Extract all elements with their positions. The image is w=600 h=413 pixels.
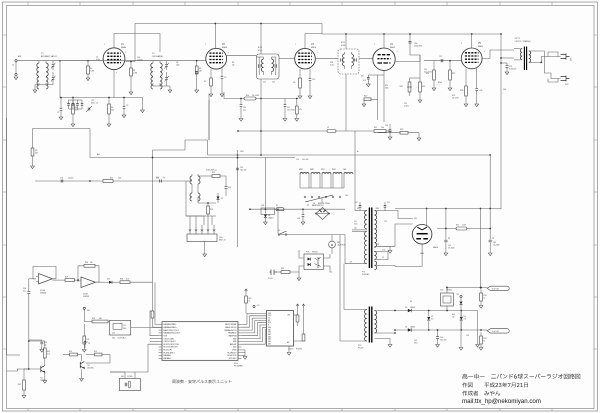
wire PT2 primary taps [344, 309, 367, 311]
capacitor C29 plate bypass [506, 63, 508, 65]
svg-text:X01: X01 [87, 310, 90, 312]
wire AC rail lower [278, 234, 345, 236]
wire PT2 secondary taps [374, 310, 395, 312]
ground PT1 center tap [384, 246, 390, 250]
jack J2 DC out 1 [487, 286, 509, 290]
svg-text:MULT_IO: MULT_IO [219, 240, 227, 242]
wire jog to rail [208, 154, 238, 156]
capacitor C33 line filter [302, 209, 304, 214]
svg-text:E: E [268, 325, 269, 327]
svg-text:100u 16V: 100u 16V [240, 169, 246, 171]
svg-text:22u-350V: 22u-350V [493, 244, 500, 246]
svg-text:100u 16V: 100u 16V [440, 339, 446, 341]
svg-text:100: 100 [452, 316, 455, 318]
wire T02 out [86, 355, 110, 364]
svg-text:R07: R07 [65, 277, 68, 279]
cathode bus [60, 97, 143, 99]
svg-text:0.01u: 0.01u [354, 223, 358, 225]
svg-text:R21: R21 [422, 86, 425, 88]
wire IFT2 left pin [315, 58, 338, 60]
wire band switch drop [321, 198, 323, 203]
capacitor C52 primary [384, 206, 387, 208]
svg-text:IC05: IC05 [440, 290, 444, 292]
wire filter link rail [437, 228, 490, 230]
svg-text:5: 5 [317, 52, 318, 54]
svg-text:220p 500V: 220p 500V [414, 45, 423, 47]
svg-text:2SC1815: 2SC1815 [87, 367, 94, 369]
wire T1 bottoms [39, 84, 53, 86]
diode D6 rectifier [408, 328, 411, 331]
node B+ bus A [135, 23, 322, 25]
microcontroller IC03 PIC16F886 [162, 322, 238, 361]
ground T2 [169, 86, 171, 90]
svg-text:0.01u: 0.01u [96, 59, 100, 61]
resistor R14 on input line [103, 180, 113, 183]
svg-text:R22: R22 [364, 96, 367, 98]
wire IF B+ branch rail [238, 130, 355, 132]
connector CN1 MULT_IO [187, 234, 217, 242]
resistor R18 [70, 353, 78, 356]
svg-text:R12: R12 [212, 172, 215, 174]
ground LCD [288, 346, 290, 352]
wire IFT2 to V4 [359, 58, 373, 60]
capacitor C16 [41, 340, 43, 342]
wire AGC jog 1 [153, 149, 186, 151]
svg-text:3.6: 3.6 [431, 318, 433, 320]
svg-text:SW2: SW2 [332, 169, 336, 171]
svg-text:C26: C26 [385, 125, 388, 127]
wire LCD right side [294, 314, 298, 316]
svg-text:C4: C4 [96, 57, 98, 59]
svg-text:4.7k: 4.7k [299, 109, 302, 111]
svg-text:B+: B+ [357, 151, 359, 153]
svg-text:1: 1 [205, 44, 206, 46]
svg-text:GR8038: GR8038 [40, 292, 46, 294]
zener diode D8 [460, 311, 462, 317]
svg-text:(P-B): (P-B) [341, 45, 346, 47]
svg-text:R20: R20 [385, 85, 388, 87]
svg-text:R14: R14 [110, 178, 113, 180]
svg-text:1.5M: 1.5M [133, 72, 137, 74]
capacitor C25 [367, 75, 369, 77]
svg-text:1N4007: 1N4007 [410, 307, 415, 309]
svg-text:4.7k: 4.7k [47, 353, 50, 355]
svg-text:D2: D2 [221, 198, 223, 200]
svg-text:220 1/2W: 220 1/2W [452, 97, 459, 99]
wire bridge in rail [316, 213, 329, 215]
svg-text:C34: C34 [404, 103, 407, 105]
wire T2 to V2 grid [61, 60, 160, 62]
resistor R28 LCD [297, 312, 299, 315]
wire IFT1 left pin [256, 56, 259, 58]
resistor R33 bleeder [480, 288, 482, 294]
svg-text:56k: 56k [90, 262, 93, 264]
svg-text:X02: X02 [121, 376, 124, 378]
wire DC rail upper [395, 310, 478, 312]
wire input coupling [29, 278, 36, 280]
svg-text:C24: C24 [330, 62, 333, 64]
wire antenna line to V1 [35, 60, 103, 62]
svg-text:R32: R32 [452, 314, 455, 316]
svg-text:470u: 470u [414, 342, 418, 344]
svg-text:C28: C28 [479, 90, 482, 92]
svg-text:0.022u: 0.022u [404, 105, 409, 107]
svg-text:100k: 100k [118, 178, 122, 180]
svg-text:1: 1 [374, 44, 375, 46]
svg-text:T02: T02 [87, 365, 90, 367]
svg-text:MULT_1C: MULT_1C [91, 102, 99, 104]
svg-text:R30: R30 [281, 268, 284, 270]
wire AVC rail [90, 157, 295, 159]
svg-text:1: 1 [461, 43, 462, 45]
heater transformer PT2 core [369, 307, 371, 343]
wire rail riser x=237.5 [237, 150, 239, 247]
resistor R6 grid [196, 61, 198, 66]
wire B+ feed riser right [489, 155, 491, 209]
wire CN1 ground [204, 242, 206, 255]
resistor R15 [83, 324, 85, 336]
svg-text:C10: C10 [137, 57, 140, 59]
svg-text:1k: 1k [484, 297, 486, 299]
svg-text:DB6: DB6 [268, 341, 271, 343]
svg-text:47u 350V: 47u 350V [448, 247, 454, 249]
svg-text:R02: R02 [18, 384, 21, 386]
svg-text:RB5/AN13/T1G: RB5/AN13/T1G [224, 329, 237, 332]
buffer transformer T4 upper [191, 174, 193, 176]
wire jack rail riser [479, 209, 481, 288]
wire buffer outputs down [203, 216, 205, 225]
svg-text:C27: C27 [439, 56, 442, 58]
svg-text:100: 100 [354, 228, 357, 230]
wire filament taps join [381, 252, 388, 260]
switch S2 power [278, 234, 280, 236]
wire switch feed [277, 209, 279, 234]
wire AVC tap [59, 61, 61, 98]
svg-text:DB1: DB1 [268, 329, 271, 331]
resistor R10 screen [244, 97, 256, 100]
svg-text:R18: R18 [69, 351, 72, 353]
svg-text:RB7/ICSPDAT: RB7/ICSPDAT [225, 323, 237, 326]
wire X04 output to MCU [131, 327, 162, 329]
svg-text:6BD6: 6BD6 [311, 47, 317, 49]
svg-text:DB2: DB2 [268, 332, 271, 334]
svg-text:1k: 1k [484, 340, 486, 342]
svg-text:TP1: TP1 [456, 294, 459, 296]
resistor R24 grid V5 [433, 61, 435, 70]
trimmer capacitor C2 [52, 72, 54, 77]
audio coupling bus [378, 132, 419, 134]
wire V5 plate to output transformer [482, 50, 514, 58]
wire PT1 feeds [354, 131, 356, 211]
wire buffer block frame [186, 181, 204, 216]
resistor R23 [400, 131, 408, 134]
wire IC01A inputs [36, 275, 39, 277]
svg-text:R33: R33 [484, 295, 487, 297]
svg-text:SW1: SW1 [321, 169, 325, 171]
LCD module LCD01 [267, 311, 294, 347]
ground power control [298, 272, 300, 278]
wire bus A to bus B [321, 24, 323, 35]
svg-text:OSC2/CLKOUT: OSC2/CLKOUT [164, 341, 177, 343]
svg-text:C15: C15 [156, 178, 159, 180]
svg-text:OSC-BAR(M): OSC-BAR(M) [152, 55, 163, 58]
ground DC rail end [477, 330, 479, 344]
svg-text:R06: R06 [85, 262, 88, 264]
capacitor C18 on input line [61, 180, 63, 183]
crystal module X02 [119, 379, 140, 391]
svg-text:R9: R9 [293, 82, 295, 84]
capacitor C51 primary [359, 206, 362, 208]
title block text line 2 [462, 382, 467, 387]
regulator IC05 7805 [441, 293, 454, 306]
wire AVC left riser [89, 129, 91, 158]
svg-text:VR1: VR1 [400, 86, 404, 88]
svg-text:C44: C44 [440, 337, 443, 339]
wire T02 emitter [81, 369, 83, 378]
svg-text:R23: R23 [400, 129, 403, 131]
wire V2 plate to B+ bus [214, 24, 216, 49]
capacitor C32 [236, 168, 239, 170]
svg-text:RC2/CCP1: RC2/CCP1 [164, 350, 173, 352]
capacitor C26 [389, 130, 392, 132]
svg-text:0.0022u: 0.0022u [68, 178, 74, 180]
svg-text:R27: R27 [374, 127, 377, 129]
svg-text:RC3/SCK/SCL: RC3/SCK/SCL [164, 352, 175, 354]
wire jack rail 1 [447, 287, 487, 289]
capacitor C16b [225, 187, 228, 189]
wire IFT2 top pin [345, 34, 347, 49]
svg-text:RB2: RB2 [233, 338, 236, 340]
svg-text:MW2: MW2 [310, 169, 314, 171]
wire OPT primary taps [514, 48, 520, 50]
svg-text:R13: R13 [210, 209, 213, 211]
wire V4 output [395, 55, 420, 62]
crystal oscillator X04 TCXO [110, 320, 131, 335]
wire screen bus V2-V3 [224, 98, 298, 100]
svg-text:RB6/ICSPCLK: RB6/ICSPCLK [225, 327, 237, 329]
wire PT1 secondary taps [374, 210, 381, 212]
svg-text:6AR5: 6AR5 [478, 45, 484, 48]
svg-text:T01: T01 [40, 378, 43, 380]
svg-text:22k 1/4W: 22k 1/4W [252, 95, 259, 97]
svg-text:2.2M: 2.2M [90, 70, 94, 72]
svg-text:5: 5 [484, 51, 485, 53]
plug P1 [270, 270, 278, 276]
svg-text:DB3: DB3 [268, 334, 271, 336]
svg-text:C25: C25 [363, 80, 366, 82]
svg-text:680: 680 [99, 318, 102, 320]
wire V3 plate to bus B [304, 34, 306, 49]
coil L14 SW2 [333, 173, 342, 175]
svg-text:R7: R7 [204, 81, 206, 83]
svg-text:C16: C16 [44, 342, 47, 344]
svg-text:OPT1: OPT1 [515, 38, 521, 40]
wire IFT1 secondary to V3 [279, 58, 295, 60]
diode D01 [109, 281, 112, 284]
diode D3 surge [264, 209, 266, 213]
svg-text:C13: C13 [312, 79, 315, 81]
wire V2 cathode drop [208, 94, 210, 140]
svg-text:2.2k: 2.2k [126, 279, 129, 281]
svg-text:10k: 10k [381, 127, 384, 129]
wire motor feed [331, 235, 333, 242]
svg-text:ANT-BAR(T-VAR.C): ANT-BAR(T-VAR.C) [41, 55, 57, 58]
wire B+ to OPT [501, 57, 514, 59]
capacitor C9 [221, 68, 223, 77]
capacitor C3 cathode bypass [60, 98, 62, 109]
IF transformer IFT2 [338, 49, 359, 74]
padder trimmer capacitor block [68, 100, 70, 103]
terminal TP1 chain [460, 295, 462, 297]
svg-text:RA4/T0CKI/C1OUT: RA4/T0CKI/C1OUT [164, 329, 180, 332]
wire buffer input line [35, 180, 186, 182]
svg-text:6BE6: 6BE6 [222, 47, 228, 49]
svg-text:RA2/AN2/VREF-: RA2/AN2/VREF- [164, 323, 177, 326]
wire MCU left pin connections [155, 282, 159, 324]
PT1 HV secondary winding [374, 211, 376, 248]
wire AC rail upper [250, 208, 345, 210]
capacitor C12 IFT1 right [275, 64, 277, 67]
svg-text:DB7: DB7 [268, 343, 271, 345]
wire OPT secondary taps [529, 50, 533, 52]
wire MCU right bus to LCD [242, 314, 267, 325]
title block text line 3 [462, 391, 467, 396]
svg-text:BRIDGE 2W05G: BRIDGE 2W05G [318, 203, 331, 205]
PT2 secondary winding [374, 311, 376, 334]
resistor R16 [92, 320, 108, 323]
svg-text:C20: C20 [243, 107, 246, 109]
svg-text:C22: C22 [263, 82, 266, 84]
svg-text:D9: D9 [410, 301, 412, 303]
title block text line 1 [462, 374, 467, 379]
ground T1 [34, 88, 36, 90]
svg-text:R19: R19 [94, 351, 97, 353]
wire PT1 primary taps [355, 210, 367, 212]
power transformer PT1 core [369, 208, 371, 269]
svg-text:DB5: DB5 [268, 339, 271, 341]
resistor R31 filter [456, 227, 467, 230]
resistor R3 [108, 98, 110, 105]
svg-text:DB4: DB4 [268, 336, 271, 338]
svg-text:R10: R10 [246, 95, 249, 97]
svg-text:R08: R08 [120, 279, 123, 281]
svg-text:0.01u-500V: 0.01u-500V [424, 71, 432, 73]
antenna jack J1 [15, 60, 17, 62]
PT1 heater windings [374, 252, 376, 260]
svg-text:RA5/AN4/SS/C2OUT: RA5/AN4/SS/C2OUT [164, 332, 181, 335]
svg-text:GR8038: GR8038 [83, 296, 89, 298]
capacitor C15 input [160, 180, 162, 183]
capacitor C5 [123, 98, 125, 107]
svg-text:2p: 2p [163, 177, 165, 179]
wire T01 collector [44, 358, 46, 366]
svg-text:D4: D4 [313, 203, 315, 205]
svg-text:CN2: CN2 [261, 205, 264, 207]
svg-text:D7: D7 [431, 316, 433, 318]
svg-text:LW1: LW1 [343, 169, 346, 171]
wire AVC far-left segment [33, 128, 91, 130]
zener diode D7 [428, 311, 430, 317]
svg-text:D5: D5 [405, 307, 407, 309]
svg-text:C52: C52 [387, 202, 390, 204]
svg-text:0.1u: 0.1u [23, 290, 26, 292]
svg-text:C9: C9 [224, 77, 226, 79]
fuse F1 [276, 208, 284, 211]
svg-text:1N4007: 1N4007 [410, 327, 415, 329]
svg-text:VSS: VSS [268, 313, 271, 315]
svg-text:C16: C16 [228, 187, 231, 189]
wire left AVC column [32, 129, 34, 149]
wire V1 cathode [113, 70, 115, 97]
wire rectifier filament return [421, 244, 423, 266]
svg-text:SP1: SP1 [569, 58, 571, 61]
node B+ feed vertical [500, 34, 502, 209]
svg-text:PC1: PC1 [306, 252, 309, 254]
wire V2 cathode to jog [208, 100, 210, 140]
capacitor C42 filter + [489, 209, 491, 240]
svg-text:6.3V OUT: 6.3V OUT [492, 289, 499, 291]
svg-text:10u: 10u [44, 344, 47, 346]
coil L15 LW [344, 173, 353, 175]
wire jack rail 2 [478, 329, 488, 331]
resistor R17 on riser [151, 311, 154, 318]
transistor T01 input amp [41, 366, 45, 373]
wire V1 plate to B+ [125, 24, 135, 62]
svg-text:5: 5 [125, 52, 126, 54]
capacitor C44 + [437, 330, 439, 336]
resistor R30 [281, 271, 290, 274]
svg-text:C08: C08 [23, 288, 26, 290]
capacitor C08 input [28, 279, 30, 291]
svg-text:2.2k: 2.2k [75, 109, 78, 111]
resistor R1 grid leak [87, 61, 89, 66]
wire T01 base [29, 330, 41, 369]
coil L11 MW1 [300, 173, 309, 175]
svg-text:1k: 1k [249, 300, 251, 302]
wire rail riser x=261 junction [260, 154, 262, 156]
svg-text:C41: C41 [448, 245, 451, 247]
wire V4 plate to bus B [383, 34, 385, 48]
svg-text:C21: C21 [91, 100, 94, 102]
svg-text:22k: 22k [111, 109, 114, 111]
wire OPT secondary routing [533, 51, 561, 79]
resistor R21 [419, 82, 422, 92]
svg-text:R25: R25 [452, 73, 455, 75]
svg-text:7: 7 [116, 73, 117, 75]
svg-text:RC6/TX/CK: RC6/TX/CK [227, 355, 237, 357]
ground PT2 tap [388, 345, 392, 348]
svg-text:C23: C23 [272, 82, 275, 84]
resistor R02 source [23, 369, 25, 380]
photocoupler PC1 PS2501 [304, 254, 324, 270]
resistor R19 [95, 353, 103, 356]
buffer transformer T4 lower [191, 191, 193, 193]
resistor R26 cathode V5 [465, 69, 467, 87]
IF transformer IFT1 [257, 54, 280, 79]
svg-text:R24b: R24b [438, 82, 442, 84]
wire IFT2 bottom pin [345, 74, 347, 131]
svg-text:RC1/T1OSI/CCP2: RC1/T1OSI/CCP2 [164, 347, 178, 349]
diode D5 rectifier [408, 309, 411, 312]
svg-text:VSS2: VSS2 [232, 350, 236, 352]
tube V4 6AV6 detector [373, 48, 395, 70]
node regulator feed [446, 287, 448, 289]
jack J3 DC out 2 [487, 329, 509, 333]
svg-text:PT2: PT2 [358, 345, 361, 347]
svg-text:S1: S1 [307, 205, 309, 207]
wire V5 plate top to bus B [471, 34, 473, 48]
svg-text:R20: R20 [249, 298, 252, 300]
